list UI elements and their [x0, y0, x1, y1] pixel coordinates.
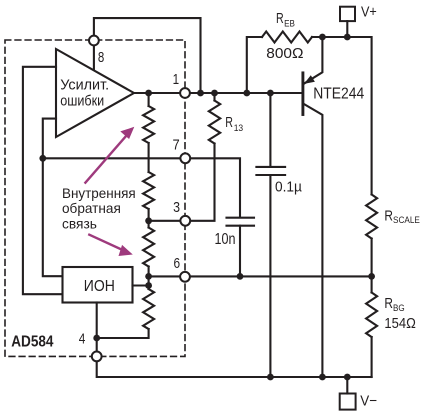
wire pin3 row — [149, 144, 215, 221]
wire pin1 row (op-amp output to transistor base) — [134, 92, 301, 94]
resistor ladder segment 4 — [143, 289, 154, 329]
svg-text:NTE244: NTE244 — [313, 86, 364, 103]
resistor ladder segment 1 — [143, 106, 154, 143]
wire pin4 below to bottom rail — [97, 361, 372, 377]
wire pin8 to op-amp — [93, 45, 95, 72]
svg-text:BG: BG — [393, 303, 405, 314]
V- terminal square — [340, 394, 356, 410]
transistor Q1 NTE244 base bar — [301, 73, 304, 115]
svg-text:R: R — [384, 209, 393, 225]
transistor collector wire — [304, 104, 323, 377]
junction dot 10 — [145, 273, 152, 280]
op-amp U1 error amplifier — [56, 49, 134, 137]
junction dot 6 — [319, 34, 326, 41]
wire ladder lead 5 — [148, 267, 150, 290]
svg-text:AD584: AD584 — [11, 333, 54, 350]
svg-text:1: 1 — [173, 71, 180, 88]
resistor RSCALE — [366, 195, 377, 239]
transistor emitter wire — [304, 37, 322, 84]
junction dot 4 — [243, 90, 250, 97]
svg-text:154Ω: 154Ω — [384, 315, 415, 332]
pin 1 open circle — [180, 88, 190, 98]
svg-text:EB: EB — [284, 18, 295, 29]
wire ladder lead 3 — [148, 209, 150, 221]
wire C1 top lead — [269, 93, 271, 167]
wire ladder lead 2 (crosses pin7 wire) — [148, 143, 150, 172]
svg-text:ошибки: ошибки — [60, 92, 104, 109]
svg-text:800Ω: 800Ω — [266, 45, 303, 62]
ION box (voltage reference) — [63, 267, 133, 303]
svg-text:Усилит.: Усилит. — [60, 76, 109, 93]
wire op-amp upper input to ION lower stub — [23, 67, 63, 294]
junction dot 2 — [197, 90, 204, 97]
svg-text:3: 3 — [173, 199, 180, 216]
wire ladder lead 4 — [148, 221, 150, 228]
junction dot 13 — [368, 273, 375, 280]
svg-text:R: R — [276, 11, 284, 27]
wire C1 bottom lead — [269, 175, 271, 377]
wire ladder lead 1 — [148, 93, 150, 106]
resistor R13 — [209, 101, 220, 144]
wire RBG bottom — [371, 337, 373, 377]
junction dot 16 — [319, 374, 326, 381]
junction dot 14 — [93, 335, 100, 342]
svg-text:V−: V− — [360, 392, 377, 409]
transistor emitter arrowhead — [304, 75, 315, 84]
wire pin7 row — [43, 157, 181, 159]
svg-text:6: 6 — [174, 255, 181, 272]
junction dot 5 — [267, 90, 274, 97]
wire ladder bottom to pin4 node — [97, 329, 149, 338]
junction dot 1 — [145, 90, 152, 97]
junction dot 7 — [344, 34, 351, 41]
svg-text:связь: связь — [62, 217, 97, 232]
junction dot 12 — [237, 273, 244, 280]
wire RSCALE bottom — [371, 239, 373, 293]
capacitor C2 10n — [227, 218, 255, 226]
pin 3 open circle — [180, 216, 190, 226]
AD584 dashed box — [5, 40, 185, 356]
svg-text:ИОН: ИОН — [84, 278, 115, 295]
wire pin8 top loop — [94, 18, 201, 93]
svg-text:4: 4 — [79, 331, 86, 348]
junction dot 17 — [344, 374, 351, 381]
wire V- lead — [346, 377, 348, 394]
pin 7 open circle — [180, 153, 190, 163]
internal feedback arrow 2 — [88, 234, 125, 251]
junction dot 11 — [145, 282, 152, 289]
junction dot 9 — [145, 217, 152, 224]
svg-text:0.1µ: 0.1µ — [275, 179, 303, 195]
junction dot 8 — [39, 155, 46, 162]
svg-text:V+: V+ — [361, 4, 377, 21]
pin 6 open circle — [180, 272, 190, 282]
wire pin6 row — [149, 275, 372, 277]
svg-text:R: R — [384, 296, 393, 312]
svg-text:SCALE: SCALE — [393, 215, 420, 226]
wire REB left lead — [247, 37, 262, 93]
svg-text:Внутренняя: Внутренняя — [62, 186, 136, 201]
resistor RBG 154ohm — [366, 293, 377, 338]
svg-text:R: R — [225, 115, 233, 131]
V+ terminal square — [340, 7, 355, 21]
wire pin7 to 10n cap — [190, 158, 240, 216]
wire V+ lead — [346, 21, 348, 37]
junction dot 15 — [267, 374, 274, 381]
wire R13 top lead — [213, 93, 215, 101]
resistor ladder segment 3 — [143, 228, 154, 267]
svg-text:обратная: обратная — [62, 201, 121, 216]
wire REB right to V+ corner — [312, 37, 372, 195]
resistor ladder segment 2 — [143, 172, 154, 209]
svg-text:8: 8 — [98, 49, 104, 66]
svg-text:7: 7 — [173, 137, 180, 154]
wire ION right stub to ladder — [133, 284, 149, 286]
internal feedback arrow 1 — [85, 134, 128, 184]
wire op-amp lower input to ION upper stub — [43, 119, 63, 277]
pin 8 open circle — [89, 36, 99, 46]
capacitor C1 0.1u — [256, 167, 285, 175]
pin 4 open circle — [92, 352, 102, 362]
wire C2 bottom lead — [239, 226, 241, 277]
svg-text:10n: 10n — [215, 231, 236, 248]
junction dot 3 — [211, 90, 218, 97]
wire ION bottom to pin4 node — [96, 303, 98, 352]
svg-text:13: 13 — [234, 123, 244, 134]
resistor REB 800ohm — [262, 32, 312, 43]
